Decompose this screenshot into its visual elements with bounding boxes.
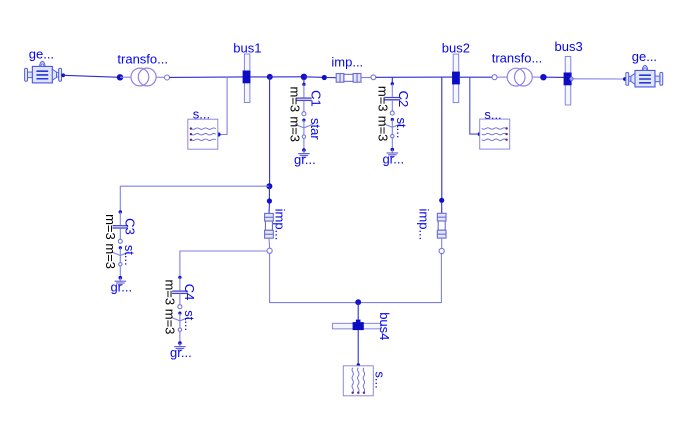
svg-text:imp...: imp... bbox=[273, 209, 288, 241]
capacitor C1 bbox=[288, 79, 324, 116]
load S1 bbox=[188, 106, 218, 149]
wire bus2 down to impedance imp3 bbox=[441, 77, 443, 199]
node: impedance imp2 top pin bbox=[267, 198, 272, 203]
star (C4 branch) bbox=[163, 309, 197, 335]
node B (junction at capacitor C1 branch) bbox=[301, 74, 307, 80]
wire star to ground (C3 branch) bbox=[119, 266, 121, 278]
svg-text:imp...: imp... bbox=[331, 54, 363, 69]
ground (C3 branch) bbox=[110, 276, 132, 295]
svg-text:s...: s... bbox=[484, 107, 501, 122]
node: impedance imp3 bottom pin (open) bbox=[439, 248, 444, 253]
bus4 bbox=[332, 312, 391, 340]
svg-text:imp...: imp... bbox=[417, 209, 432, 241]
wire imp2 pin to capacitor C4 branch bbox=[180, 251, 267, 276]
node: generator G2 terminal bbox=[623, 77, 627, 81]
svg-text:C1: C1 bbox=[309, 90, 324, 107]
svg-text:st...: st... bbox=[182, 310, 197, 331]
wire bus1 down-left to load S1 bbox=[221, 77, 228, 135]
transformer T2 bbox=[492, 51, 543, 86]
load S2 bbox=[480, 107, 510, 149]
wire node A to node B bbox=[270, 76, 304, 78]
svg-text:gr...: gr... bbox=[294, 152, 316, 167]
svg-text:C3: C3 bbox=[122, 218, 137, 235]
svg-text:transfo...: transfo... bbox=[117, 51, 168, 66]
svg-text:bus3: bus3 bbox=[554, 39, 582, 54]
svg-text:C4: C4 bbox=[182, 284, 197, 301]
wire imp2 down to bottom bus path bbox=[270, 253, 442, 302]
generator G2 bbox=[626, 49, 663, 87]
wire tee down to capacitor C2 bbox=[391, 77, 393, 82]
wire node A down to node C bbox=[269, 77, 271, 186]
svg-text:m=3: m=3 bbox=[163, 309, 178, 335]
ground (C4 branch) bbox=[170, 341, 192, 360]
bus2 bbox=[442, 40, 470, 102]
generator G1 bbox=[25, 47, 62, 83]
wire node C to capacitor C3 branch bbox=[120, 186, 269, 212]
node: transformer T1 secondary pin (open) bbox=[165, 75, 170, 80]
bus3 bbox=[554, 39, 582, 105]
svg-text:ge...: ge... bbox=[29, 47, 54, 62]
svg-text:s...: s... bbox=[372, 371, 387, 388]
svg-text:m=3: m=3 bbox=[103, 243, 118, 269]
wire node C to impedance imp2 bbox=[268, 186, 270, 200]
node C (junction at impedance imp2 top) bbox=[266, 183, 272, 189]
wire node B to impedance imp1 bbox=[304, 76, 326, 79]
node: impedance imp2 bottom pin (open) bbox=[267, 248, 272, 253]
bus1 bbox=[233, 40, 261, 102]
svg-text:C2: C2 bbox=[396, 91, 411, 108]
svg-text:st...: st... bbox=[122, 245, 137, 266]
impedance imp1 bbox=[327, 54, 371, 82]
svg-text:bus2: bus2 bbox=[442, 40, 470, 55]
wire bus3 to generator G2 bbox=[571, 78, 625, 80]
svg-text:ge...: ge... bbox=[632, 49, 657, 64]
svg-text:s...: s... bbox=[193, 106, 210, 121]
svg-text:gr...: gr... bbox=[110, 280, 132, 295]
wire T2 to bus3 bbox=[546, 76, 565, 78]
capacitor C4 bbox=[163, 276, 198, 309]
wire G1 to transformer T1 bbox=[63, 75, 120, 77]
star (C3 branch) bbox=[103, 243, 137, 269]
node: impedance imp1 left pin bbox=[322, 75, 327, 80]
node: load S2 pin bbox=[478, 132, 482, 136]
wire star to ground (C2 branch) bbox=[391, 138, 393, 150]
svg-text:gr...: gr... bbox=[170, 345, 192, 360]
wire bus4 to load S3 bbox=[357, 330, 359, 364]
node: load S1 pin bbox=[217, 132, 221, 136]
node: transformer T1 primary pin bbox=[117, 74, 123, 80]
wire bus1 to node A bbox=[250, 76, 270, 78]
wire imp1 to bus2 bbox=[376, 76, 453, 78]
node: impedance imp1 right pin (open) bbox=[371, 75, 376, 80]
impedance imp2 bbox=[265, 204, 288, 249]
transformer T1 bbox=[117, 51, 168, 86]
svg-text:star: star bbox=[308, 118, 323, 140]
node: generator G1 terminal bbox=[61, 73, 65, 77]
svg-text:m=3: m=3 bbox=[376, 116, 391, 142]
svg-text:st...: st... bbox=[394, 118, 409, 139]
node: transformer T2 left pin (open) bbox=[492, 75, 497, 80]
svg-text:bus1: bus1 bbox=[233, 40, 261, 55]
svg-text:transfo...: transfo... bbox=[492, 51, 543, 66]
wire T1 to bus1 bbox=[169, 76, 244, 79]
svg-text:gr...: gr... bbox=[382, 151, 404, 166]
svg-text:m=3: m=3 bbox=[288, 86, 303, 112]
ground (C1 branch) bbox=[294, 148, 316, 167]
capacitor C2 bbox=[376, 82, 411, 115]
node A (junction above impedance imp2) bbox=[267, 74, 273, 80]
node: transformer T2 right pin bbox=[540, 74, 546, 80]
node: impedance imp3 top pin bbox=[439, 198, 444, 203]
svg-text:m=3: m=3 bbox=[288, 116, 303, 142]
wire star to ground (C1 branch) bbox=[303, 138, 305, 150]
node: load S3 pin bbox=[357, 363, 360, 366]
ground (C2 branch) bbox=[382, 148, 404, 167]
load S3 bbox=[343, 366, 387, 396]
svg-text:m=3: m=3 bbox=[103, 214, 118, 240]
star (C1 branch) bbox=[288, 116, 323, 142]
star (C2 branch) bbox=[376, 116, 410, 142]
wire bus2 down-right to load S2 bbox=[470, 77, 478, 134]
node D (junction above bus4) bbox=[355, 299, 361, 305]
svg-text:m=3: m=3 bbox=[163, 279, 178, 305]
wire node D to bus4 bbox=[357, 302, 359, 323]
wire bus2 to transformer T2 bbox=[459, 76, 493, 78]
capacitor C3 bbox=[103, 210, 137, 243]
svg-text:m=3: m=3 bbox=[376, 86, 391, 112]
impedance imp3 bbox=[417, 203, 446, 249]
wire star to ground (C4 branch) bbox=[179, 331, 181, 343]
svg-text:bus4: bus4 bbox=[377, 312, 392, 340]
